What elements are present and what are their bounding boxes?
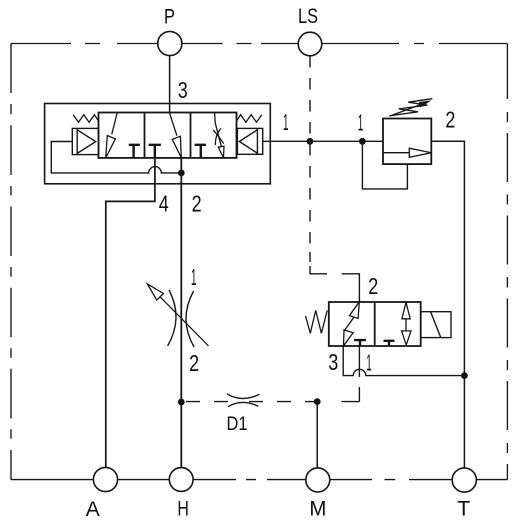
svg-text:2: 2: [189, 350, 199, 376]
svg-text:1: 1: [358, 109, 364, 135]
svg-text:3: 3: [328, 349, 338, 375]
svg-text:T: T: [457, 497, 470, 521]
svg-text:3: 3: [178, 77, 188, 103]
svg-text:LS: LS: [298, 4, 318, 28]
svg-text:1: 1: [366, 350, 372, 376]
svg-text:1: 1: [283, 109, 289, 135]
svg-text:4: 4: [159, 191, 169, 217]
svg-text:M: M: [309, 496, 326, 520]
svg-text:2: 2: [192, 191, 202, 217]
svg-text:P: P: [164, 5, 175, 29]
svg-text:2: 2: [445, 107, 455, 133]
svg-text:D1: D1: [227, 413, 248, 435]
svg-text:2: 2: [368, 273, 378, 299]
svg-text:H: H: [177, 497, 189, 521]
svg-text:1: 1: [191, 264, 197, 290]
svg-text:A: A: [86, 497, 101, 521]
